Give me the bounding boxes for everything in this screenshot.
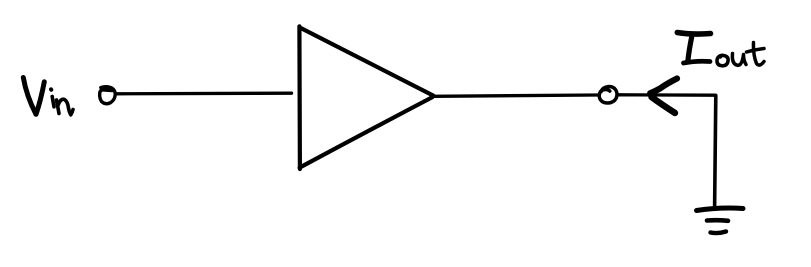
wire (output terminal to corner) [619,93,716,97]
wire (input, terminal to triangle) [116,92,292,96]
ground [697,208,744,233]
current arrow Iout (pointing left into node) [650,79,677,114]
label Vin [23,78,73,115]
wire (triangle apex to output terminal) [434,95,598,96]
terminal node (output) [599,87,617,103]
terminal node (input) [100,87,116,104]
op-amp buffer U1 (triangle) [299,26,433,169]
wire (corner down to ground) [715,96,716,209]
label Iout [677,33,764,66]
